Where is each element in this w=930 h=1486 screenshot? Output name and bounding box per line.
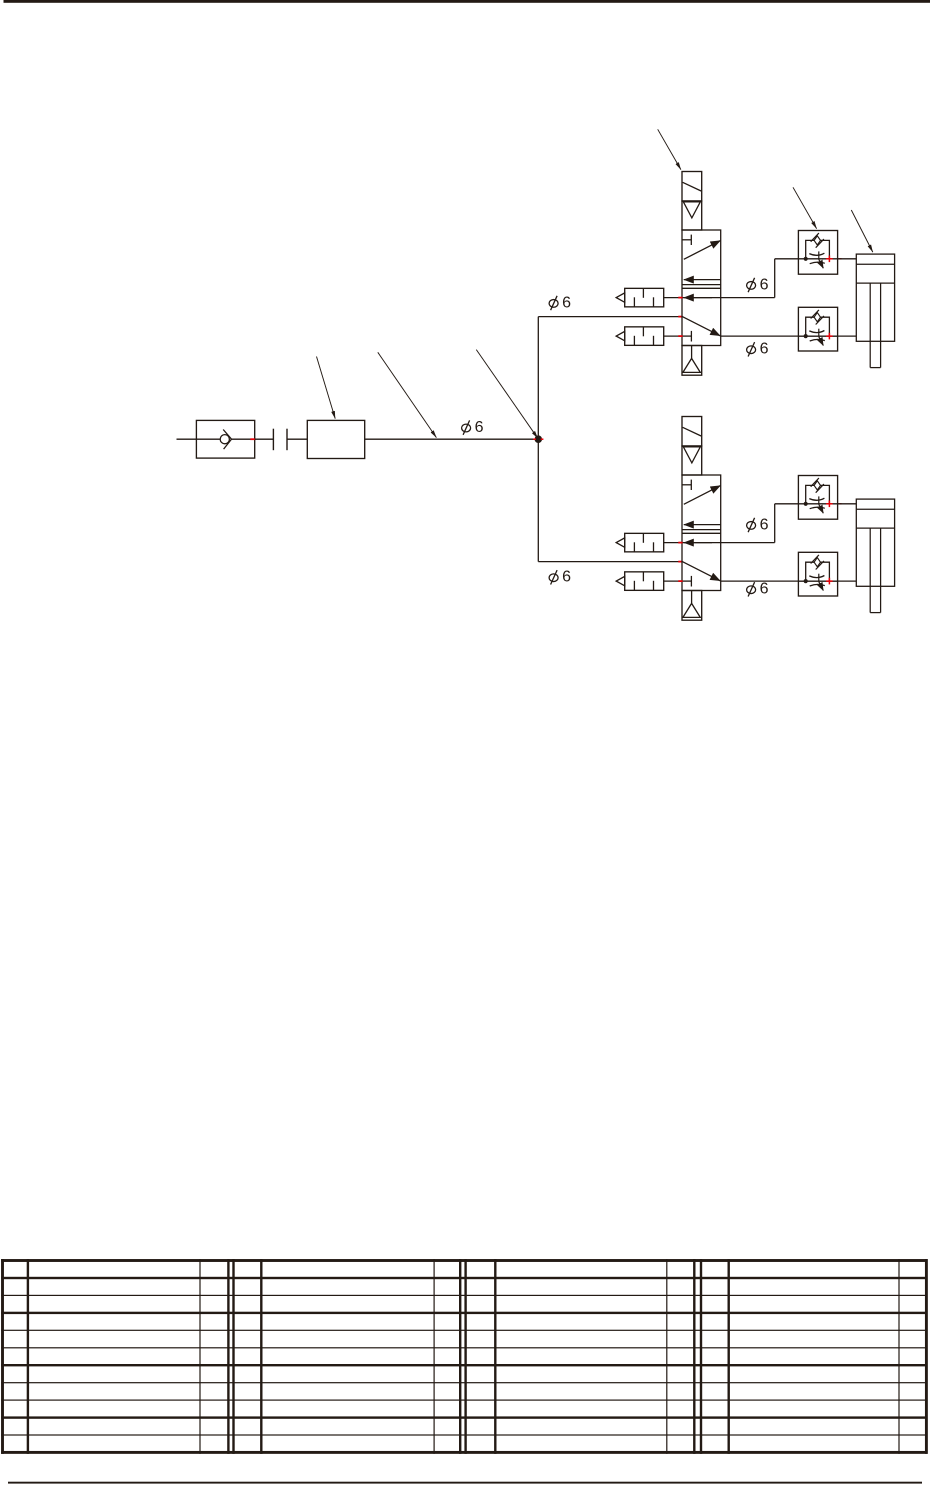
- wire port B riser of valve V2: [774, 504, 776, 543]
- cylinder V2 barrel: [856, 499, 894, 586]
- svg-text:6: 6: [475, 419, 484, 436]
- leader to flow control valve FCV1: [793, 187, 817, 228]
- valve V2 position divider lines: [682, 529, 721, 531]
- label phi6 on V2 port A tube: [747, 586, 756, 594]
- red connection tick muffler M1 valve V1: [678, 297, 682, 299]
- svg-text:6: 6: [760, 516, 769, 533]
- cylinder V1 piston line 1: [856, 263, 894, 265]
- flow control valve FCV1 of V1 outer box: [798, 231, 837, 275]
- FCV2 of V2 check diamond: [814, 558, 820, 567]
- wire muffler M2 to valve V2: [664, 580, 682, 582]
- muffler M1 of valve V1 tip: [616, 293, 625, 302]
- svg-text:6: 6: [760, 341, 769, 358]
- cylinder V1 rod: [869, 283, 871, 368]
- pilot box of valve V2: [682, 446, 702, 475]
- wire branch to valve V1: [538, 316, 682, 318]
- FCV1 of V1 node dot: [804, 257, 808, 261]
- svg-text:6: 6: [562, 569, 571, 586]
- label phi6 on V1 branch: [549, 300, 558, 308]
- parts table vertical rules: [1, 1259, 4, 1454]
- return pilot stem of valve V2: [691, 591, 693, 604]
- FCV1 of V2 adjustment arrow: [818, 496, 820, 504]
- valve V1 position divider lines: [682, 284, 721, 286]
- FCV2 of V2 bypass loop: [806, 562, 830, 581]
- muffler M2 of valve V1 tip: [616, 331, 625, 340]
- FCV2 of V1 check seat ticks: [811, 310, 819, 319]
- leader to cylinder V1: [851, 210, 873, 252]
- node T-junction of supply: [535, 435, 543, 443]
- flow path arrow P-to-A of valve V1: [682, 317, 720, 336]
- page top border bar: [4, 0, 930, 3]
- FCV1 of V2 main line: [798, 503, 837, 505]
- leader to air service unit: [317, 357, 336, 419]
- cylinder V1 piston line 2: [856, 282, 894, 284]
- quick coupling half 1: [272, 429, 274, 451]
- FCV2 of V2 adjustment arrow: [818, 574, 820, 582]
- leader to solenoid of valve V1: [658, 129, 681, 169]
- label phi6 on V1 port B tube: [747, 282, 756, 290]
- FCV2 of V2 red node cross: [826, 580, 832, 582]
- label phi6 on V2 branch: [549, 574, 558, 582]
- cylinder V2 rod: [869, 528, 871, 613]
- FCV2 of V1 node dot: [804, 334, 808, 338]
- valve V1 body: [682, 230, 721, 346]
- label phi6 on V2 port B tube: [747, 522, 756, 530]
- muffler M1 of valve V2 baffles: [633, 542, 635, 552]
- solenoid coil of valve V1: [682, 172, 702, 202]
- wire branch to valve V2: [538, 561, 682, 563]
- check valve seat: [223, 430, 231, 450]
- svg-text:6: 6: [562, 294, 571, 311]
- muffler M2 of valve V1 baffles: [633, 336, 635, 346]
- wire coupling to air unit: [287, 438, 307, 440]
- wire inside check valve: [196, 438, 220, 440]
- return pilot box of valve V2: [682, 591, 702, 621]
- FCV2 of V1 check diamond: [814, 313, 820, 322]
- cylinder V1 barrel: [856, 254, 894, 341]
- muffler M2 of valve V2 tip: [616, 576, 625, 585]
- FCV2 of V1 throttle arcs: [809, 331, 824, 333]
- flow control valve FCV2 of V1 outer box: [798, 307, 837, 351]
- FCV2 of V2 node dot: [804, 579, 808, 583]
- FCV1 of V1 throttle arcs: [809, 253, 824, 255]
- leader to junction node: [476, 350, 538, 439]
- FCV1 of V2 bypass loop: [806, 485, 830, 503]
- check valve ball: [220, 435, 229, 444]
- wire FCV1 of V2 to cylinder top port: [838, 503, 857, 505]
- wire supply riser: [537, 317, 539, 562]
- valve V2 body: [682, 475, 721, 591]
- flow path arrow P-to-A of valve V2: [682, 562, 720, 581]
- pilot triangle of valve V1: [683, 202, 700, 218]
- muffler M1 of valve V2 body: [625, 533, 664, 552]
- wire to quick coupling: [255, 438, 274, 440]
- air service unit FR1 body: [307, 420, 364, 458]
- FCV2 of V2 check seat ticks: [811, 555, 819, 564]
- FCV1 of V1 red node cross: [826, 258, 832, 260]
- parts table horizontal rules: [1, 1259, 927, 1262]
- pilot box of valve V1: [682, 201, 702, 230]
- muffler M2 of valve V2 baffles: [633, 581, 635, 591]
- leader to supply tube: [378, 352, 437, 437]
- svg-text:6: 6: [760, 581, 769, 598]
- red connection tick at check valve outlet: [250, 438, 255, 440]
- FCV1 of V1 main line: [798, 258, 837, 260]
- FCV2 of V2 throttle arcs: [809, 576, 824, 578]
- blocked port symbol top of valve V1: [682, 239, 691, 241]
- wire air unit to junction, phi6 tube: [365, 438, 539, 440]
- muffler M2 of valve V1 body: [625, 327, 664, 346]
- FCV1 of V2 node dot: [804, 502, 808, 506]
- red connection tick muffler M1 valve V2: [678, 542, 682, 544]
- FCV1 of V1 check diamond: [814, 236, 820, 245]
- exhaust arrow of valve V1 top position: [684, 279, 721, 281]
- cylinder V2 piston line 1: [856, 508, 894, 510]
- FCV1 of V2 check seat ticks: [811, 478, 819, 487]
- FCV1 of V2 throttle arcs: [809, 498, 824, 500]
- return pilot stem of valve V1: [691, 346, 693, 359]
- muffler M1 of valve V1 body: [625, 288, 664, 307]
- return pilot triangle of valve V2: [683, 603, 700, 617]
- red connection tick at valve V1 inlet: [678, 316, 682, 318]
- flow path arrow P-to-B of valve V2: [684, 486, 721, 505]
- wire muffler M1 through valve V2 to port B: [664, 542, 775, 544]
- muffler M2 of valve V2 body: [625, 572, 664, 591]
- FCV1 of V1 check seat ticks: [811, 233, 819, 242]
- wire muffler M2 to valve V1: [664, 335, 682, 337]
- wire port A of valve V1 to cylinder: [721, 335, 857, 337]
- FCV2 of V1 main line: [798, 335, 837, 337]
- wire FCV1 of V1 to cylinder top port: [838, 258, 857, 260]
- FCV2 of V2 main line: [798, 580, 837, 582]
- wire port B to flow control valve of V2: [775, 503, 799, 505]
- FCV2 of V1 adjustment arrow: [818, 329, 820, 337]
- wire port B to flow control valve of V1: [775, 258, 799, 260]
- red tick after FCV1 of V1: [838, 258, 841, 260]
- FCV2 of V1 bypass loop: [806, 317, 830, 336]
- FCV2 of V1 red node cross: [826, 335, 832, 337]
- return pilot triangle of valve V1: [683, 358, 700, 372]
- wire port B riser of valve V1: [774, 259, 776, 298]
- red connection tick at valve V2 inlet: [678, 561, 682, 563]
- page bottom rule: [8, 1482, 922, 1484]
- quick coupling half 2: [286, 429, 288, 451]
- wire check valve to outlet: [232, 438, 255, 440]
- svg-text:6: 6: [760, 276, 769, 293]
- blocked port symbol bottom of valve V2: [682, 580, 691, 582]
- FCV1 of V1 adjustment arrow: [818, 251, 820, 259]
- red connection tick muffler M2 valve V1: [678, 335, 682, 337]
- exhaust arrowhead at muffler M1 port of valve V2: [684, 542, 712, 544]
- flow path arrow P-to-B of valve V1: [684, 241, 721, 260]
- label phi6 on V1 port A tube: [747, 346, 756, 354]
- wire supply inlet: [177, 438, 197, 440]
- pilot triangle of valve V2: [683, 447, 700, 463]
- wire port A of valve V2 to cylinder: [721, 580, 857, 582]
- blocked port symbol bottom of valve V1: [682, 335, 691, 337]
- flow control valve FCV2 of V2 outer box: [798, 552, 837, 596]
- solenoid diagonal of valve V1: [683, 182, 702, 191]
- cylinder V2 piston line 2: [856, 527, 894, 529]
- solenoid diagonal of valve V2: [683, 427, 702, 436]
- exhaust arrowhead at muffler M1 port of valve V1: [684, 297, 712, 299]
- muffler M1 of valve V1 baffles: [633, 297, 635, 307]
- flow control valve FCV1 of V2 outer box: [798, 476, 837, 520]
- label phi6 on supply tube: [462, 424, 471, 432]
- solenoid coil of valve V2: [682, 417, 702, 447]
- check valve CV1 body: [196, 420, 254, 458]
- blocked port symbol top of valve V2: [682, 484, 691, 486]
- wire muffler M1 through valve V1 to port B: [664, 297, 775, 299]
- exhaust arrow of valve V2 top position: [684, 524, 721, 526]
- FCV1 of V1 bypass loop: [806, 240, 830, 258]
- FCV1 of V2 red node cross: [826, 503, 832, 505]
- return pilot box of valve V1: [682, 346, 702, 376]
- red tick after FCV1 of V2: [838, 503, 841, 505]
- muffler M1 of valve V2 tip: [616, 538, 625, 547]
- FCV1 of V2 check diamond: [814, 481, 820, 490]
- red connection tick muffler M2 valve V2: [678, 580, 682, 582]
